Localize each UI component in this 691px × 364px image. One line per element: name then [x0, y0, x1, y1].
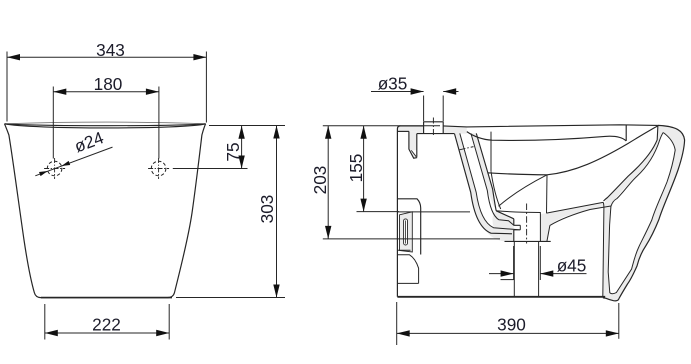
dimension dia35 [371, 92, 459, 122]
deck band [397, 126, 423, 134]
bowl floor slab edges [546, 202, 611, 241]
centerlines [433, 118, 526, 244]
right wall outer edge [603, 125, 685, 300]
dimension 155 [357, 126, 400, 212]
void between bowl wall and outer shell [608, 133, 675, 294]
base bottom edge [41, 297, 172, 299]
bowl front wall left edge [604, 125, 658, 201]
rim jog vertical [625, 125, 627, 141]
slant sandwich: outer gray strip [454, 133, 520, 233]
slant band: white channel right edge [471, 133, 520, 225]
pedestal front band bottom [603, 204, 611, 297]
bowl inner rim line A [467, 132, 626, 141]
rim front edge [5, 124, 206, 126]
slant band: white channel left edge [460, 133, 521, 230]
rim crown arc [5, 122, 206, 124]
interior shelf lines [397, 211, 470, 213]
small ledge line left of spigot [501, 279, 514, 281]
dia 24 leader through left hole [35, 147, 112, 176]
mounting hole right (dashed circle + center cross) [148, 158, 169, 179]
pedestal band edges [603, 202, 604, 297]
channel end cap + notch edges [514, 225, 521, 230]
bowl sump right vertical [546, 175, 549, 213]
dimension 203 [323, 126, 500, 239]
svg-text:390: 390 [497, 315, 526, 335]
J hook outline [409, 131, 417, 158]
svg-text:75: 75 [223, 142, 243, 161]
svg-text:ø35: ø35 [378, 74, 408, 94]
boss gray parallelogram [400, 212, 413, 252]
void outline: band2 inner edge + band1 right edge [608, 133, 675, 294]
funnel right wedge + floor slab gray [540, 202, 611, 241]
bowl curve B lower segment to funnel [499, 175, 548, 207]
rim under edge [5, 124, 206, 128]
funnel left flare [496, 211, 514, 242]
dimension 390 [397, 302, 619, 345]
spigot sides [514, 241, 538, 296]
funnel left gray [487, 211, 514, 242]
right wall: gray blob then white void overlay [603, 125, 685, 300]
dimension 303 (vertical) [176, 126, 285, 298]
dimension 180 [53, 87, 159, 159]
dimension 343 [7, 52, 206, 123]
deck top [401, 125, 424, 127]
top silhouette to corner [443, 125, 658, 127]
mounting hole left (dashed circle + center cross) [44, 158, 65, 179]
J hook [409, 131, 417, 150]
svg-text:222: 222 [92, 315, 121, 335]
gray section fills [397, 122, 611, 297]
slant sandwich: inner gray strip [471, 133, 500, 212]
dimension 75 (vertical, right of body) [173, 126, 285, 169]
svg-text:203: 203 [310, 166, 330, 195]
slant band outer edge [454, 133, 512, 233]
svg-text:ø45: ø45 [557, 255, 587, 275]
back edge [397, 126, 400, 297]
deck bottom left [397, 130, 409, 132]
dimension dia45 [489, 246, 587, 280]
dimension 222 (bottom) [45, 304, 169, 340]
bowl big curve B + shelf [488, 126, 658, 175]
svg-text:303: 303 [257, 195, 277, 224]
svg-text:343: 343 [96, 40, 125, 60]
funnel bottom [505, 240, 551, 242]
funnel mouth top edge + bore right edge [496, 211, 540, 242]
boss slot [404, 219, 408, 245]
svg-text:155: 155 [346, 154, 366, 183]
boss outline [397, 199, 420, 255]
bowl downcurve to funnel [491, 171, 501, 209]
boss lower lines [397, 250, 418, 283]
slant band inner edge [476, 133, 496, 210]
faucet collar [424, 122, 444, 134]
deck bottom right of hook [417, 133, 454, 135]
base bottom [397, 296, 605, 298]
bowl back vertical [490, 132, 492, 172]
white bore mouth overlay [498, 211, 541, 241]
svg-text:180: 180 [94, 74, 123, 94]
bidet front body outline [5, 124, 206, 298]
